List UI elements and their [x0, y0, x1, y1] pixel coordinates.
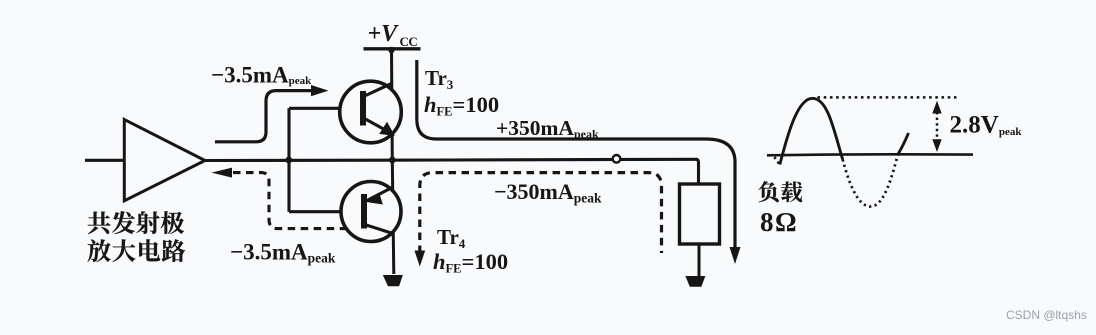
- resistor RL load: [680, 184, 720, 244]
- wire -350mA dashed loop with down arrow: [420, 173, 662, 253]
- ground under load: [687, 277, 705, 286]
- label 放大电路: [88, 239, 186, 262]
- wire Tr3 base lead: [289, 107, 341, 110]
- wire main output node line from amplifier to load: [205, 159, 699, 184]
- svg-text:+V: +V: [368, 21, 400, 47]
- transistor Tr4 (PNP): [341, 182, 401, 242]
- node open-circle output terminal: [613, 155, 621, 163]
- svg-text:CC: CC: [400, 34, 418, 49]
- dimension arrow 2.8Vpeak: [932, 101, 941, 152]
- wire -3.5mA return dashed arrow: [233, 173, 346, 229]
- wire +350mA current loop with down arrow: [417, 60, 735, 250]
- label 负载: [758, 181, 802, 202]
- power +Vcc bar: [364, 47, 421, 50]
- wire input line: [85, 159, 124, 162]
- transistor Tr3 (NPN): [340, 81, 402, 143]
- ground under Tr4: [384, 276, 402, 286]
- waveform next half tail (solid): [898, 133, 909, 155]
- waveform positive half (solid): [780, 98, 843, 164]
- wire resistor to ground: [698, 244, 701, 277]
- svg-text:CSDN @ltqshs: CSDN @ltqshs: [1006, 308, 1087, 322]
- node junction dot (bases): [285, 157, 292, 164]
- label 共发射极: [88, 211, 184, 234]
- svg-text:8Ω: 8Ω: [760, 207, 798, 237]
- waveform negative half (dotted): [843, 155, 898, 207]
- wire node down through Tr4 to ground: [392, 161, 394, 275]
- svg-text:hFE=100: hFE=100: [424, 92, 499, 119]
- wire -3.5mA input current arrow (solid S-curve): [215, 91, 313, 142]
- wire Vcc rail down through Tr3 to node: [390, 49, 394, 161]
- waveform axis: [767, 153, 973, 157]
- node junction dot (emitters): [389, 157, 396, 164]
- dotted peak reference line: [818, 96, 960, 99]
- svg-text:hFE=100: hFE=100: [433, 249, 508, 276]
- wire base bus vertical: [287, 108, 290, 211]
- wire Tr4 base lead: [289, 210, 342, 213]
- waveform dotted lead-in: [775, 157, 780, 165]
- op-amp A1 common-emitter amplifier triangle: [124, 120, 205, 201]
